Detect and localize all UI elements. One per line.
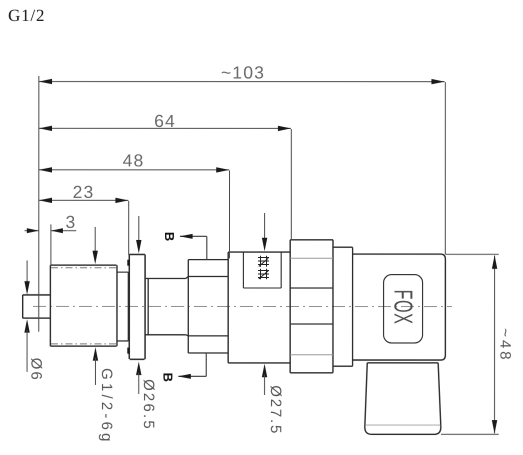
svg-text:~103: ~103 xyxy=(221,62,265,82)
leader Ø27.5 top xyxy=(262,213,267,251)
svg-text:Ø27.5: Ø27.5 xyxy=(267,385,284,435)
chamfered block (section B-B location) xyxy=(186,260,228,353)
dimension 64 xyxy=(39,111,292,239)
connector body xyxy=(365,363,441,435)
svg-text:64: 64 xyxy=(154,111,176,131)
nameplate label box xyxy=(243,252,281,288)
svg-text:48: 48 xyxy=(123,150,145,170)
ring between hex and housing xyxy=(333,247,353,366)
centerline xyxy=(33,305,452,307)
svg-text:B: B xyxy=(162,232,177,241)
leader Ø6 bottom with text xyxy=(24,319,44,382)
neck groove xyxy=(117,272,128,341)
main extension line at left reference xyxy=(38,76,40,332)
hex nut xyxy=(290,240,333,373)
FOX text xyxy=(389,290,419,325)
svg-text:G1/2-6g: G1/2-6g xyxy=(98,368,115,445)
dimension ~103 xyxy=(39,62,446,254)
extension line at body face x=50.9 xyxy=(50,224,52,265)
thread designation title G1/2 xyxy=(8,6,45,25)
svg-text:Ø26.5: Ø26.5 xyxy=(140,379,157,431)
dimension ~48 extension lines xyxy=(441,254,499,434)
FOX label rounded box xyxy=(384,275,423,343)
thread crest dash-dot lines xyxy=(51,268,116,344)
svg-text:Ø6: Ø6 xyxy=(27,358,44,382)
svg-text:3: 3 xyxy=(66,212,77,232)
port tube Ø6 xyxy=(23,295,51,318)
leader Ø26.5 top xyxy=(136,216,141,254)
housing xyxy=(353,254,446,360)
leader Ø26.5 bottom with text xyxy=(136,362,157,431)
leader Ø27.5 bottom with text xyxy=(262,364,284,435)
section mark B bottom xyxy=(160,353,206,382)
leader G1/2-6g bottom with text xyxy=(93,347,115,444)
cylinder after flange xyxy=(145,278,186,334)
dimension 3 xyxy=(24,212,76,233)
svg-text:G1/2: G1/2 xyxy=(8,6,45,25)
leader G1/2-6g top xyxy=(92,227,97,264)
svg-text:~48: ~48 xyxy=(496,328,513,362)
big block Ø27.5 xyxy=(228,252,290,363)
dimension 23 xyxy=(39,182,129,255)
leader Ø6 top xyxy=(24,260,29,294)
svg-text:FOX: FOX xyxy=(389,290,419,325)
thread body G1/2 outline xyxy=(50,265,117,346)
svg-text:B: B xyxy=(160,373,175,382)
nameplate chinese text xyxy=(258,256,269,280)
dimension 48 xyxy=(39,150,230,258)
svg-text:23: 23 xyxy=(73,182,95,202)
section mark B top xyxy=(162,232,207,259)
flange Ø26.5 xyxy=(129,254,146,359)
dimension ~48 xyxy=(492,255,514,433)
